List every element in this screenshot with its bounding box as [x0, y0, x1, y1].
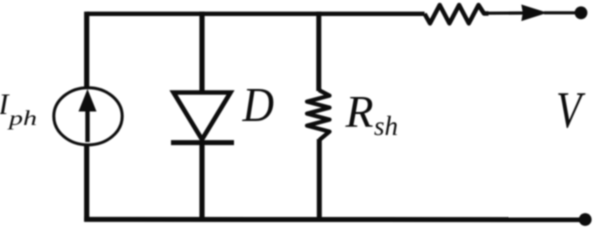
label Rsh — [345, 86, 399, 141]
terminal dot top — [575, 6, 588, 19]
wire left branch upper — [84, 12, 89, 88]
svg-text:D: D — [242, 79, 274, 132]
diode D — [171, 93, 234, 143]
wire resistor to arrow — [489, 11, 527, 14]
svg-text:R: R — [345, 86, 374, 137]
resistor Rsh — [307, 90, 330, 140]
label Iph — [0, 88, 37, 130]
terminal dot bottom — [579, 213, 592, 226]
svg-text:sh: sh — [374, 111, 398, 141]
current source Iph — [54, 88, 122, 145]
current direction arrowhead — [521, 5, 547, 22]
wire Rsh branch lower — [317, 139, 322, 222]
svg-text:ph: ph — [6, 106, 37, 130]
wire top bus — [87, 12, 425, 16]
svg-text:V: V — [556, 82, 586, 139]
wire diode branch lower — [199, 142, 204, 222]
wire bottom bus — [84, 217, 582, 222]
resistor Rs (series) — [425, 5, 489, 23]
wire diode branch upper — [199, 12, 204, 93]
wire arrow to terminal — [544, 11, 578, 14]
wire left branch lower — [84, 145, 89, 222]
wire Rsh branch upper — [316, 12, 321, 91]
